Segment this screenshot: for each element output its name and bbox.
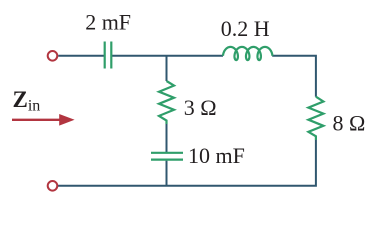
svg-text:8 Ω: 8 Ω xyxy=(333,110,366,135)
svg-text:0.2 H: 0.2 H xyxy=(221,16,270,41)
svg-text:Zin: Zin xyxy=(13,87,41,115)
svg-text:2 mF: 2 mF xyxy=(85,9,131,34)
svg-text:3 Ω: 3 Ω xyxy=(184,95,217,120)
svg-text:10 mF: 10 mF xyxy=(188,143,245,168)
